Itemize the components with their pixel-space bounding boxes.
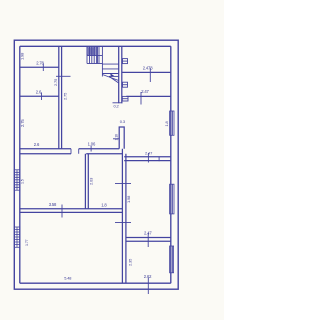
wall D bottom line [20,211,123,213]
wall A top line [20,148,119,150]
outer wall inner face right [170,46,172,283]
svg-text:5.48: 5.48 [64,275,71,280]
wall V2 line b [125,154,127,283]
stair tread x97.5 [97,46,99,63]
tick on P1 [42,64,44,72]
stair arrow [110,73,114,77]
tick bottom 2.62 [147,278,149,295]
wall C bottom line [124,160,171,162]
tick2 on V2 [115,222,131,224]
partition P2 [20,95,59,97]
svg-text:1.77: 1.77 [25,239,29,246]
stair flight1 right edge [101,46,103,76]
wall C top line [124,156,171,158]
svg-text:1.98: 1.98 [20,52,25,60]
wall A bottom line [20,153,123,155]
svg-text:1.5: 1.5 [21,179,25,184]
stair landing block [87,47,95,55]
svg-text:2.03: 2.03 [89,177,94,185]
tick on wall D [61,205,63,218]
jamb wall C [158,157,160,162]
window right W3 [170,246,174,273]
svg-text:2.478: 2.478 [143,66,154,71]
stair mid line [87,55,102,57]
vent rect 2 [123,82,128,87]
svg-text:2.6: 2.6 [34,142,40,147]
tick wall E [147,233,149,247]
svg-text:0.3: 0.3 [120,119,126,124]
window right W1 [170,111,174,135]
wall D top line [20,208,123,210]
window left WL1 [14,170,19,190]
svg-text:2.75: 2.75 [20,119,25,127]
svg-text:2.35: 2.35 [127,258,132,266]
wall E top line [126,237,171,239]
outer wall inner face bottom [20,282,171,284]
svg-text:2.47: 2.47 [145,150,153,155]
stair lower line [109,75,119,77]
wall V3 [85,154,88,209]
svg-text:2.75: 2.75 [62,92,67,100]
svg-text:2.75: 2.75 [53,78,58,86]
outer wall outer face [14,40,178,289]
outer wall inner face left [19,46,21,283]
tick R1/R2 [149,69,151,83]
svg-text:3.58: 3.58 [49,202,57,207]
svg-text:2.47: 2.47 [141,89,149,94]
wall V2 line a [121,149,123,283]
wall A door jambs [71,149,79,154]
divider R2/R3 [126,95,171,97]
wall V1 line a [58,46,60,149]
svg-text:1.16: 1.16 [114,134,118,141]
tick at Ws end [113,102,123,104]
svg-text:0.2: 0.2 [114,104,120,109]
stair diagonal 1 [102,75,118,81]
tick on wall A at 1.06 [90,146,92,152]
svg-text:2.6: 2.6 [36,90,42,95]
svg-text:2.47: 2.47 [144,231,152,236]
tick R2/R3 [140,92,142,105]
tick1 on V2 [115,183,131,185]
svg-text:1.8: 1.8 [101,202,107,207]
tick on V1 [56,75,71,77]
stair flight2 treads [102,64,118,73]
stair landing bottom [87,63,102,65]
divider R1/R2 [122,71,171,73]
stair flight1 treads [87,46,99,63]
stair diagonal 2 [109,76,119,83]
door box R2/R3 [122,96,128,101]
window right W2 [170,184,174,214]
stair wall Ws [119,46,122,103]
tick left of block B [113,138,119,140]
svg-text:1.98: 1.98 [126,195,131,203]
wall E bottom line [126,240,171,242]
tick wall C [147,153,149,163]
partition P1 [20,66,59,68]
svg-text:2.78: 2.78 [36,61,44,66]
tick on P2 [41,93,43,101]
outer wall inner face top [20,45,171,47]
window left WL2 [14,227,19,247]
wall V1 line b [61,46,63,149]
svg-text:1.06: 1.06 [88,142,96,147]
vent rect 1 [123,59,128,64]
block B [119,127,124,149]
svg-text:2.62: 2.62 [144,274,152,279]
svg-text:1.8: 1.8 [164,120,169,126]
